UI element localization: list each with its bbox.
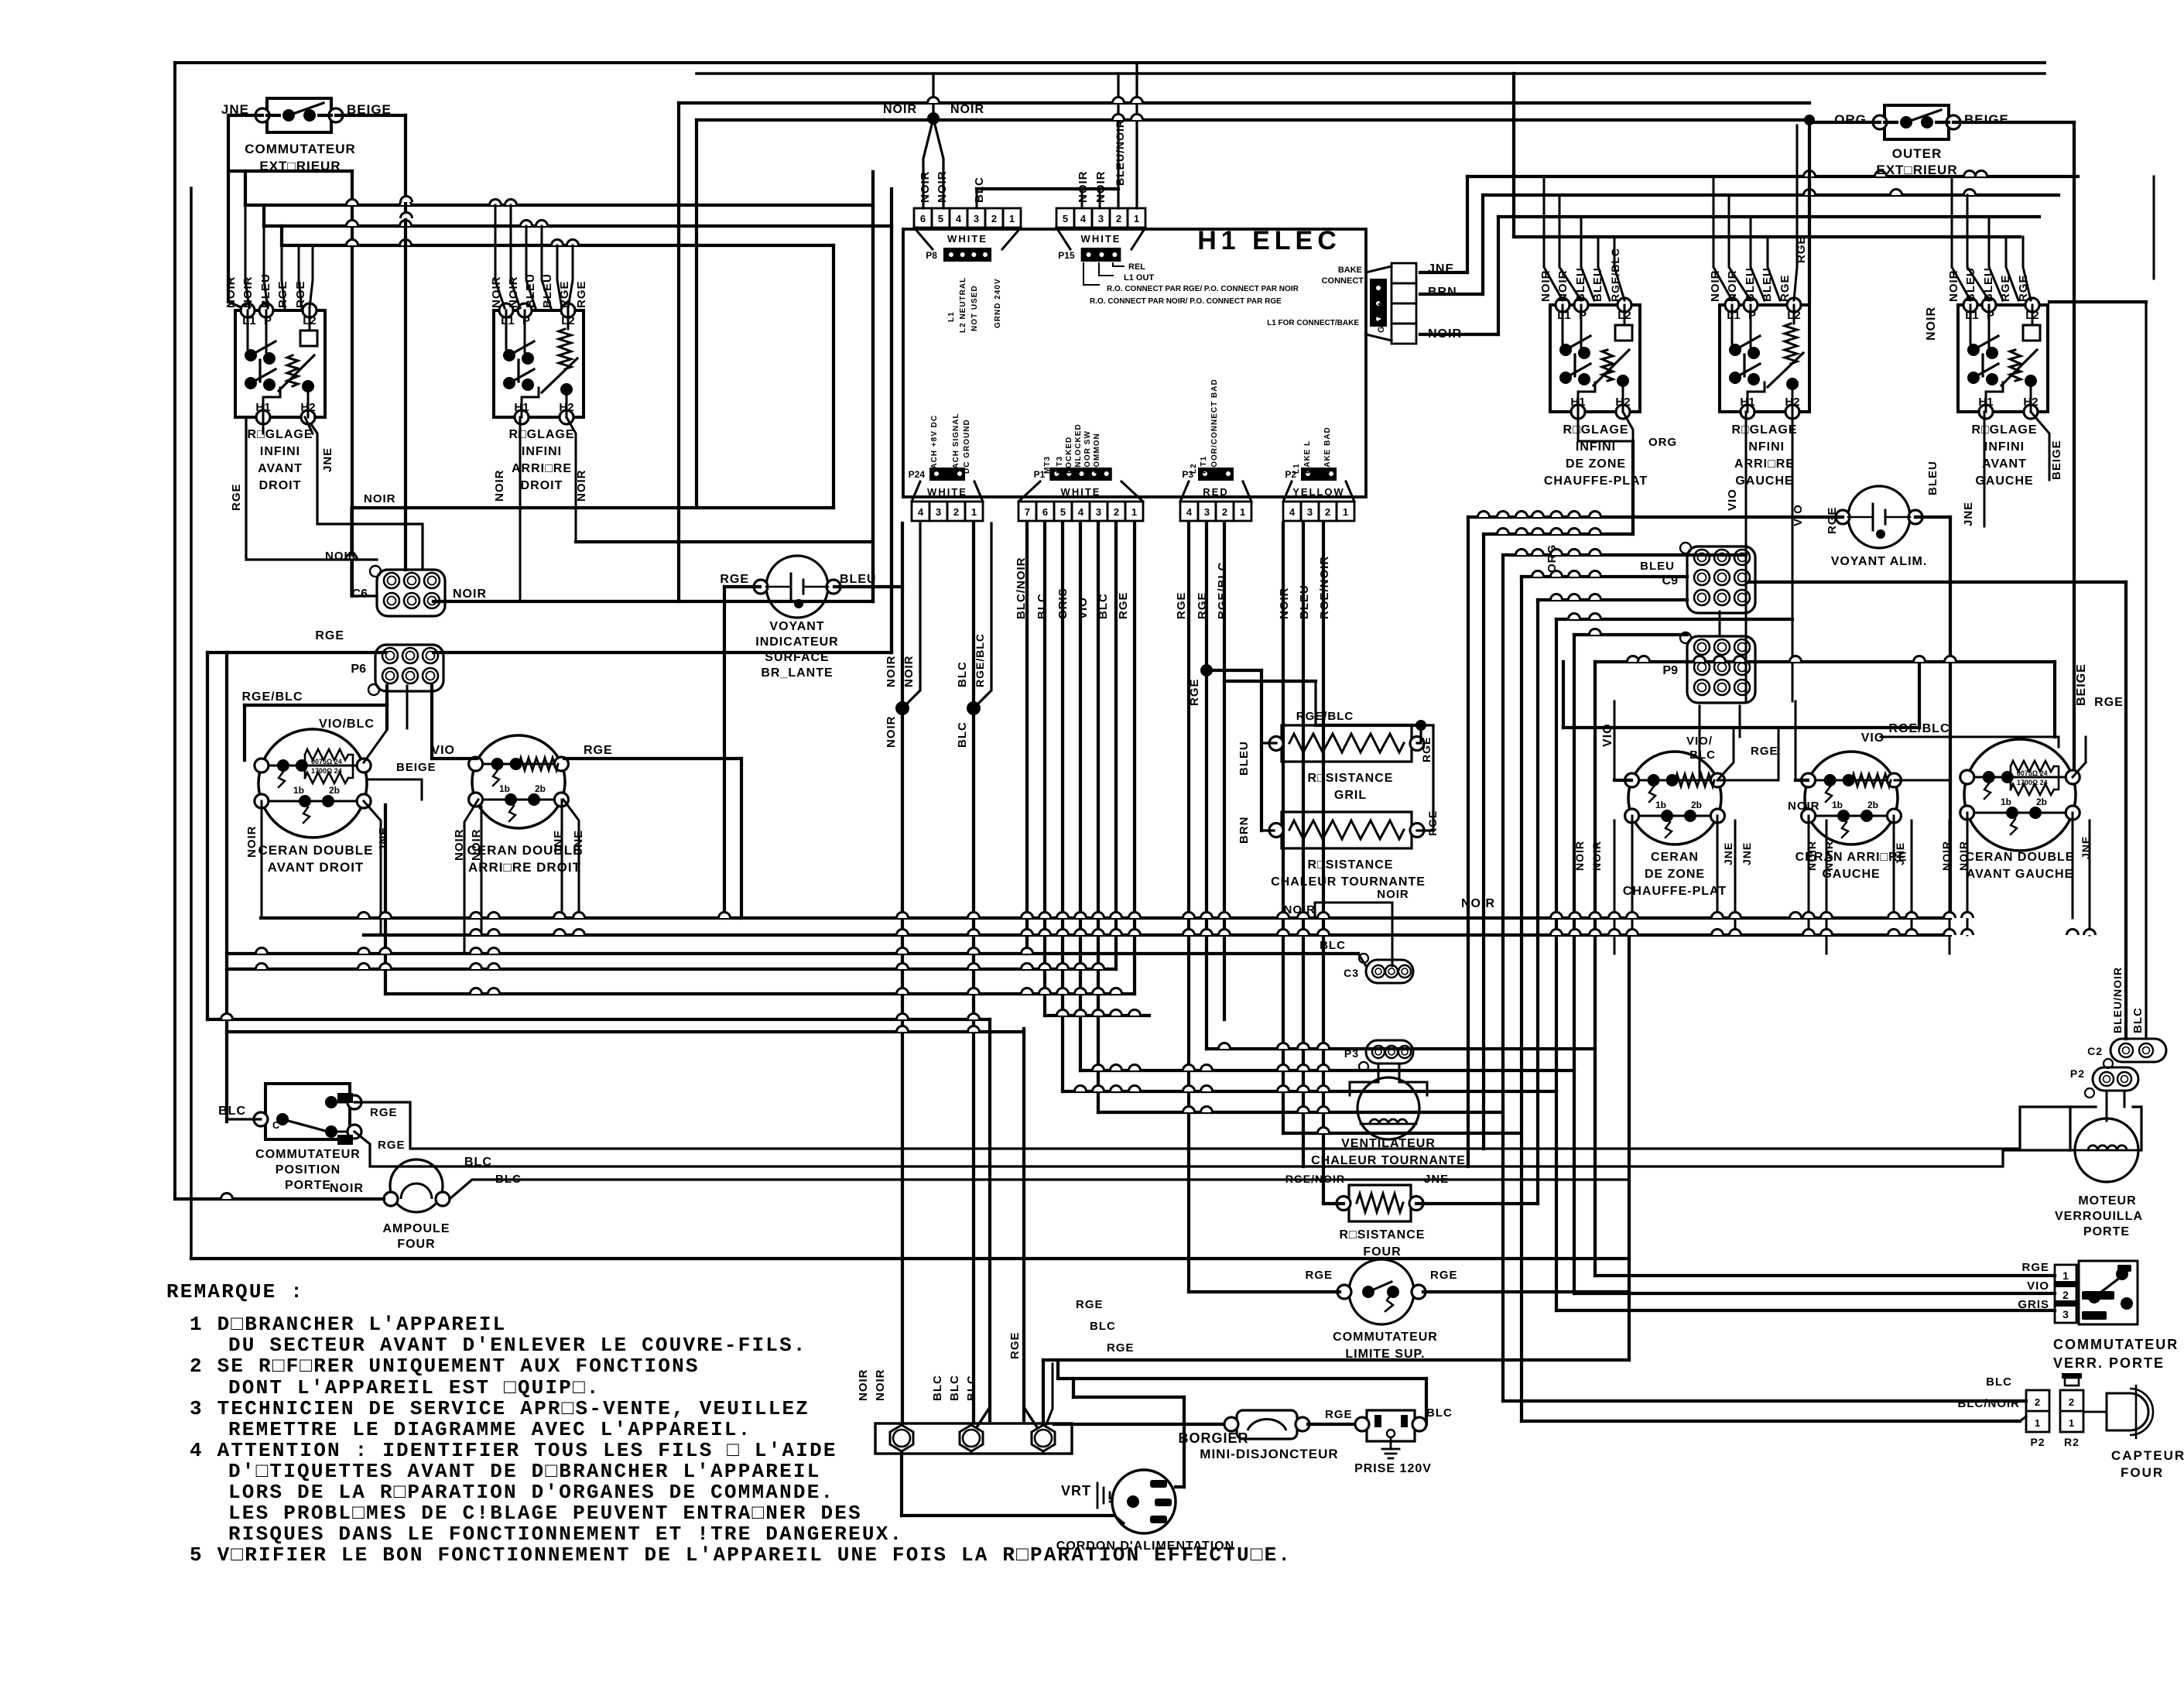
svg-text:INFINI: INFINI [522, 445, 562, 458]
svg-text:RGE: RGE [294, 280, 307, 308]
svg-text:D'□TIQUETTES AVANT DE D□BRANCH: D'□TIQUETTES AVANT DE D□BRANCHER L'APPAR… [228, 1460, 821, 1483]
svg-text:NOIR: NOIR [1823, 841, 1835, 871]
svg-text:RGE: RGE [2094, 696, 2124, 709]
svg-text:DOOR SW: DOOR SW [1083, 430, 1092, 474]
svg-text:L2: L2 [1190, 463, 1198, 474]
svg-text:P2: P2 [2070, 1067, 2085, 1080]
svg-text:NOIR: NOIR [936, 171, 949, 204]
svg-text:P: P [264, 314, 272, 327]
svg-text:NOIR: NOIR [507, 276, 520, 309]
svg-text:INFINI: INFINI [260, 445, 300, 458]
svg-text:RGE: RGE [575, 280, 588, 308]
svg-text:COMMUTATEUR: COMMUTATEUR [255, 1148, 361, 1161]
svg-text:AMPOULE: AMPOULE [383, 1222, 450, 1235]
svg-text:JNE: JNE [377, 827, 390, 851]
svg-text:DU SECTEUR AVANT D'ENLEVER LE: DU SECTEUR AVANT D'ENLEVER LE COUVRE-FIL… [228, 1334, 807, 1357]
svg-text:R.O. CONNECT PAR NOIR/ P.O. CO: R.O. CONNECT PAR NOIR/ P.O. CONNECT PAR … [1090, 297, 1282, 306]
svg-text:NOIR: NOIR [919, 171, 932, 204]
svg-text:BEIGE: BEIGE [1964, 112, 2009, 127]
svg-text:VOYANT: VOYANT [769, 620, 824, 633]
svg-text:3 TECHNICIEN DE SERVICE APR□: 3 TECHNICIEN DE SERVICE APR□S-VENTE, VEU… [190, 1397, 810, 1420]
svg-text:INFINI: INFINI [1984, 440, 2025, 454]
svg-text:YELLOW: YELLOW [1292, 486, 1345, 498]
svg-text:BLEU: BLEU [1591, 267, 1604, 302]
svg-text:LOCKED: LOCKED [1065, 437, 1073, 474]
svg-text:DE ZONE: DE ZONE [1566, 457, 1626, 471]
svg-text:BLC: BLC [218, 1105, 246, 1118]
svg-text:3: 3 [936, 506, 941, 518]
svg-text:RGE: RGE [378, 1139, 406, 1152]
svg-text:CERAN: CERAN [1651, 851, 1699, 864]
svg-text:CHAUFFE-PLAT: CHAUFFE-PLAT [1623, 885, 1727, 898]
svg-text:GREEN: GREEN [1377, 299, 1386, 333]
svg-text:BLC: BLC [464, 1156, 492, 1169]
svg-text:BLEU: BLEU [1237, 741, 1251, 776]
svg-text:RGE: RGE [315, 629, 344, 642]
svg-text:1700Ω 24: 1700Ω 24 [311, 767, 342, 775]
svg-text:BLC: BLC [956, 661, 969, 687]
svg-text:6: 6 [920, 213, 926, 224]
svg-text:BLC: BLC [1689, 748, 1716, 762]
svg-text:L1: L1 [1292, 463, 1301, 474]
svg-text:R.O. CONNECT PAR RGE/ P.O. CON: R.O. CONNECT PAR RGE/ P.O. CONNECT PAR N… [1107, 285, 1299, 293]
svg-text:NOIR: NOIR [453, 587, 487, 601]
svg-text:RGE: RGE [1826, 506, 1839, 534]
svg-text:CONNECT: CONNECT [1322, 276, 1364, 286]
svg-text:VIO: VIO [1726, 488, 1739, 511]
svg-text:VIO: VIO [1601, 723, 1614, 747]
svg-text:P8: P8 [926, 250, 937, 261]
svg-text:JNE: JNE [1722, 842, 1734, 865]
svg-text:LIMITE SUP.: LIMITE SUP. [1345, 1348, 1425, 1361]
svg-text:PRISE 120V: PRISE 120V [1354, 1462, 1432, 1475]
svg-text:TACH SIGNAL: TACH SIGNAL [952, 413, 960, 474]
svg-text:5: 5 [1063, 213, 1068, 224]
svg-text:RGE/BLC: RGE/BLC [974, 633, 986, 687]
svg-text:BLEU: BLEU [524, 273, 537, 308]
svg-text:NOIR: NOIR [1377, 888, 1409, 901]
svg-text:PORTE: PORTE [2083, 1225, 2130, 1238]
svg-text:TACH +8V DC: TACH +8V DC [930, 415, 939, 474]
svg-text:BLEU: BLEU [1761, 267, 1774, 302]
svg-text:GRND 240V: GRND 240V [994, 278, 1002, 328]
svg-text:R□GLAGE: R□GLAGE [247, 428, 313, 441]
svg-text:4: 4 [1078, 506, 1084, 518]
svg-text:JNE: JNE [1424, 1173, 1449, 1186]
svg-text:JNE: JNE [1962, 502, 1975, 526]
svg-text:2b: 2b [535, 783, 546, 794]
svg-text:BRN: BRN [1237, 817, 1251, 844]
svg-text:RGE/BLC: RGE/BLC [1889, 722, 1950, 735]
svg-text:2 SE R□F□RER UNIQUEMENT AUX: 2 SE R□F□RER UNIQUEMENT AUX FONCTIONS [190, 1355, 700, 1378]
svg-text:VERR. PORTE: VERR. PORTE [2053, 1355, 2165, 1371]
svg-text:BLC: BLC [948, 1375, 961, 1401]
svg-text:2: 2 [2062, 1289, 2069, 1301]
svg-text:C6: C6 [352, 587, 368, 601]
svg-text:BLC: BLC [956, 721, 969, 748]
svg-text:BRN: BRN [1428, 286, 1457, 299]
svg-text:P6: P6 [351, 663, 366, 676]
svg-text:AVANT DROIT: AVANT DROIT [268, 860, 365, 875]
svg-text:L1: L1 [947, 311, 956, 322]
svg-text:4: 4 [956, 213, 962, 224]
svg-text:L1: L1 [242, 314, 256, 327]
svg-text:WHITE: WHITE [1081, 233, 1121, 245]
svg-text:NOIR: NOIR [490, 276, 503, 309]
svg-text:RGE/BLC: RGE/BLC [1609, 248, 1621, 302]
svg-text:2: 2 [1222, 506, 1227, 518]
svg-text:7: 7 [1025, 506, 1030, 518]
svg-text:2: 2 [1114, 506, 1119, 518]
svg-text:BLC: BLC [965, 1375, 978, 1401]
svg-text:BLEU: BLEU [1640, 560, 1675, 573]
svg-text:RED: RED [1203, 486, 1228, 498]
svg-text:AVANT GAUCHE: AVANT GAUCHE [1967, 868, 2074, 881]
svg-text:NOIR: NOIR [1573, 841, 1586, 871]
svg-text:2b: 2b [1867, 800, 1878, 810]
svg-text:JNE: JNE [1428, 262, 1454, 276]
svg-text:L1 OUT: L1 OUT [1124, 273, 1154, 283]
svg-text:NOIR: NOIR [1925, 307, 1938, 341]
svg-text:GRIL: GRIL [1334, 789, 1367, 802]
svg-text:RGE: RGE [584, 744, 613, 757]
svg-text:VRT: VRT [1061, 1483, 1091, 1499]
svg-text:DROIT: DROIT [521, 479, 563, 492]
svg-text:CERAN DOUBLE: CERAN DOUBLE [258, 843, 374, 858]
svg-text:NOIR: NOIR [245, 826, 258, 858]
svg-text:DC GROUND: DC GROUND [963, 419, 971, 474]
svg-text:1: 1 [1009, 213, 1015, 224]
svg-text:FOUR: FOUR [1363, 1245, 1401, 1259]
svg-text:BLEU: BLEU [1574, 267, 1587, 302]
svg-text:RGE/BLC: RGE/BLC [1296, 710, 1354, 723]
svg-text:NOIR: NOIR [241, 276, 255, 309]
svg-text:NOIR: NOIR [1461, 897, 1495, 910]
svg-text:3: 3 [1204, 506, 1210, 518]
svg-text:4: 4 [1289, 506, 1296, 518]
svg-text:2b: 2b [1691, 800, 1702, 810]
svg-text:RGE: RGE [720, 573, 749, 586]
svg-text:BEIGE: BEIGE [2075, 663, 2088, 706]
svg-text:DROIT: DROIT [259, 479, 302, 492]
svg-text:R2: R2 [2064, 1436, 2080, 1448]
svg-text:NOIR: NOIR [1726, 270, 1739, 303]
svg-text:SURFACE: SURFACE [765, 651, 829, 664]
svg-text:BEIGE: BEIGE [396, 761, 436, 774]
svg-text:2b: 2b [329, 785, 340, 796]
svg-text:NOIR: NOIR [902, 656, 916, 688]
svg-text:1: 1 [2069, 1417, 2075, 1429]
svg-text:1: 1 [1131, 506, 1137, 518]
svg-text:2: 2 [953, 506, 959, 518]
svg-text:ORG: ORG [1648, 436, 1677, 449]
svg-text:P9: P9 [1662, 664, 1678, 677]
svg-text:CHALEUR TOURNANTE: CHALEUR TOURNANTE [1271, 875, 1426, 889]
svg-text:P: P [1579, 309, 1587, 322]
svg-text:BEIGE: BEIGE [2050, 440, 2063, 480]
svg-text:UNLOCKED: UNLOCKED [1074, 423, 1083, 474]
svg-text:BLEU: BLEU [1744, 267, 1757, 302]
svg-text:BAKE BAD: BAKE BAD [1323, 426, 1332, 474]
svg-text:NOIR: NOIR [224, 276, 238, 309]
svg-text:VIO: VIO [431, 744, 455, 757]
svg-text:P15: P15 [1058, 250, 1075, 261]
svg-text:R□SISTANCE: R□SISTANCE [1308, 858, 1394, 872]
svg-text:RGE: RGE [230, 483, 243, 511]
svg-text:VIO/BLC: VIO/BLC [319, 718, 375, 731]
svg-text:NOIR: NOIR [883, 103, 917, 116]
svg-text:2: 2 [991, 213, 997, 224]
svg-text:L1 FOR CONNECT/BAKE: L1 FOR CONNECT/BAKE [1267, 319, 1359, 327]
svg-text:ORG: ORG [1834, 112, 1867, 127]
svg-text:NOIR: NOIR [857, 1369, 870, 1402]
svg-text:INFINI: INFINI [1744, 440, 1785, 454]
svg-text:0075Ω 24: 0075Ω 24 [311, 758, 342, 766]
svg-text:VIO: VIO [1792, 504, 1805, 526]
svg-text:2: 2 [2069, 1396, 2075, 1408]
svg-text:FOUR: FOUR [2121, 1465, 2164, 1480]
svg-text:CERAN DOUBLE: CERAN DOUBLE [467, 843, 583, 858]
svg-text:3: 3 [974, 213, 979, 224]
svg-text:3: 3 [1307, 506, 1313, 518]
svg-text:R□GLAGE: R□GLAGE [1563, 423, 1628, 437]
svg-text:BLC: BLC [931, 1375, 944, 1401]
svg-text:6: 6 [1042, 506, 1048, 518]
svg-text:JNE: JNE [1894, 842, 1906, 865]
svg-text:1b: 1b [499, 783, 510, 794]
svg-text:VIO: VIO [1077, 597, 1090, 619]
svg-text:RGE: RGE [1325, 1408, 1353, 1421]
svg-text:BLEU: BLEU [1982, 267, 1995, 302]
svg-text:DOOR/CONNECT BAD: DOOR/CONNECT BAD [1210, 379, 1219, 474]
svg-text:BR_LANTE: BR_LANTE [761, 666, 833, 680]
svg-text:4: 4 [1186, 506, 1193, 518]
svg-text:BLEU: BLEU [1926, 461, 1939, 495]
svg-text:JNE: JNE [321, 447, 334, 472]
svg-text:COMMON: COMMON [1093, 433, 1101, 474]
svg-text:CORDON D'ALIMENTATION: CORDON D'ALIMENTATION [1056, 1540, 1234, 1553]
svg-text:CERAN DOUBLE: CERAN DOUBLE [1966, 851, 2075, 864]
svg-text:2: 2 [1325, 506, 1330, 518]
svg-text:RGE: RGE [1305, 1269, 1333, 1282]
svg-text:ARRI□RE: ARRI□RE [1734, 457, 1795, 471]
svg-text:GAUCHE: GAUCHE [1735, 474, 1793, 488]
svg-text:REMARQUE :: REMARQUE : [166, 1280, 304, 1303]
svg-text:BLEU: BLEU [259, 273, 272, 308]
svg-text:P2: P2 [2030, 1436, 2045, 1448]
svg-text:NOT USED: NOT USED [970, 285, 979, 331]
svg-text:PORTE: PORTE [285, 1179, 331, 1192]
svg-text:BLC: BLC [1426, 1406, 1453, 1420]
svg-text:CAPTEUR: CAPTEUR [2111, 1448, 2184, 1463]
svg-text:MT3: MT3 [1043, 456, 1052, 474]
svg-text:NOIR: NOIR [1590, 841, 1603, 871]
svg-text:BLEU: BLEU [840, 573, 877, 586]
svg-text:AVANT: AVANT [1982, 457, 2027, 471]
svg-text:EXT□RIEUR: EXT□RIEUR [259, 159, 341, 173]
svg-text:NOIR: NOIR [874, 1369, 887, 1402]
svg-text:BLC: BLC [1320, 939, 1346, 952]
svg-text:INFINI: INFINI [1576, 440, 1616, 454]
svg-text:RGE: RGE [1117, 591, 1130, 619]
svg-text:RGE: RGE [1188, 678, 1201, 706]
svg-text:P: P [1748, 309, 1756, 322]
svg-text:RGE: RGE [1778, 274, 1792, 302]
svg-text:NOIR: NOIR [1428, 327, 1462, 341]
svg-text:1: 1 [1240, 506, 1245, 518]
svg-text:BLEU/NOIR: BLEU/NOIR [2111, 967, 2124, 1033]
svg-text:RGE: RGE [1008, 1331, 1022, 1359]
svg-text:REMETTRE LE DIAGRAMME AVEC L'A: REMETTRE LE DIAGRAMME AVEC L'APPAREIL. [228, 1418, 752, 1441]
svg-text:R□GLAGE: R□GLAGE [1971, 423, 2037, 437]
svg-text:RGE/BLC: RGE/BLC [242, 690, 303, 704]
svg-text:L1: L1 [1727, 309, 1741, 322]
svg-text:RGE: RGE [558, 280, 571, 308]
svg-text:BLC/NOIR: BLC/NOIR [1958, 1397, 2021, 1410]
svg-text:NOIR: NOIR [1788, 800, 1820, 813]
svg-text:L1: L1 [1965, 309, 1979, 322]
svg-text:3: 3 [1098, 213, 1104, 224]
svg-text:RGE: RGE [2021, 1261, 2049, 1274]
svg-text:NOIR: NOIR [330, 1182, 364, 1195]
svg-text:1700Ω 24: 1700Ω 24 [2017, 779, 2048, 786]
svg-text:VOYANT ALIM.: VOYANT ALIM. [1831, 555, 1928, 568]
svg-text:1b: 1b [1832, 800, 1843, 810]
svg-text:NOIR: NOIR [1947, 270, 1960, 303]
svg-text:BLC: BLC [2131, 1007, 2145, 1033]
svg-text:AVANT: AVANT [258, 462, 303, 475]
svg-text:DE ZONE: DE ZONE [1645, 868, 1705, 881]
svg-text:C: C [272, 1119, 280, 1131]
svg-text:5: 5 [938, 213, 943, 224]
svg-text:P: P [1987, 309, 1994, 322]
svg-text:FOUR: FOUR [397, 1238, 435, 1251]
svg-text:NOIR: NOIR [1556, 270, 1570, 303]
svg-text:NOIR: NOIR [950, 103, 984, 116]
svg-text:POSITION: POSITION [276, 1163, 341, 1177]
svg-text:P24: P24 [909, 469, 926, 480]
svg-text:2b: 2b [2036, 796, 2047, 807]
svg-text:MT3: MT3 [1056, 456, 1064, 474]
svg-text:REL: REL [1128, 262, 1145, 272]
svg-text:NOIR: NOIR [1709, 270, 1722, 303]
svg-text:1: 1 [2062, 1269, 2069, 1282]
svg-text:RGE: RGE [370, 1106, 398, 1119]
svg-text:WHITE: WHITE [947, 233, 988, 245]
svg-text:C2: C2 [2087, 1045, 2103, 1057]
svg-text:NOIR: NOIR [1284, 903, 1316, 916]
svg-text:5: 5 [1060, 506, 1066, 518]
svg-text:WHITE: WHITE [1061, 486, 1101, 498]
svg-text:NOIR: NOIR [1539, 270, 1552, 303]
svg-text:VIO: VIO [2027, 1279, 2049, 1293]
svg-text:4: 4 [918, 506, 924, 518]
svg-text:1: 1 [1134, 213, 1139, 224]
svg-text:WHITE: WHITE [927, 486, 967, 498]
svg-text:R□SISTANCE: R□SISTANCE [1308, 772, 1394, 785]
svg-text:RGE: RGE [276, 280, 289, 308]
svg-text:NOIR: NOIR [325, 550, 358, 563]
svg-text:R□GLAGE: R□GLAGE [1731, 423, 1797, 437]
svg-text:BLEU: BLEU [541, 273, 554, 308]
svg-text:COMMUTATEUR: COMMUTATEUR [245, 142, 356, 156]
svg-text:L1: L1 [501, 314, 515, 327]
svg-text:0075Ω 24: 0075Ω 24 [2017, 769, 2048, 777]
svg-text:R□GLAGE: R□GLAGE [508, 428, 574, 441]
svg-text:COMMUTATEUR: COMMUTATEUR [2053, 1337, 2179, 1352]
svg-text:RGE: RGE [1999, 274, 2012, 302]
svg-text:P: P [522, 314, 530, 327]
svg-text:JNE: JNE [1741, 842, 1753, 865]
svg-text:LORS DE LA R□PARATION D'ORGANE: LORS DE LA R□PARATION D'ORGANES DE COMMA… [228, 1481, 834, 1504]
svg-text:BAKE: BAKE [1338, 265, 1362, 275]
svg-text:MOTEUR: MOTEUR [2078, 1194, 2136, 1207]
svg-text:BLEU: BLEU [1964, 267, 1977, 302]
svg-text:NOIR: NOIR [885, 716, 898, 748]
svg-text:BAKE L: BAKE L [1303, 440, 1312, 474]
svg-text:RGE: RGE [1795, 235, 1808, 263]
svg-text:BLC: BLC [1036, 593, 1049, 619]
svg-text:RGE: RGE [1175, 591, 1188, 619]
svg-text:BLC: BLC [1090, 1320, 1116, 1333]
svg-text:2: 2 [1116, 213, 1121, 224]
svg-text:COMMUTATEUR: COMMUTATEUR [1333, 1331, 1438, 1344]
svg-text:VIO/: VIO/ [1686, 735, 1713, 748]
svg-text:1 D□BRANCHER L'APPAREIL: 1 D□BRANCHER L'APPAREIL [190, 1313, 506, 1336]
svg-text:4 ATTENTION : IDENTIFIER TOU: 4 ATTENTION : IDENTIFIER TOUS LES FILS □… [190, 1439, 837, 1462]
svg-text:1: 1 [1343, 506, 1348, 518]
svg-text:R□SISTANCE: R□SISTANCE [1340, 1228, 1426, 1242]
svg-text:OUTER: OUTER [1892, 146, 1943, 161]
svg-text:NOIR: NOIR [493, 470, 506, 502]
svg-text:BLC: BLC [1986, 1375, 2012, 1389]
svg-text:NOIR: NOIR [364, 492, 396, 505]
svg-text:1: 1 [2035, 1417, 2041, 1429]
svg-text:L2 NEUTRAL: L2 NEUTRAL [959, 277, 967, 333]
svg-text:RGE/NOIR: RGE/NOIR [1285, 1173, 1345, 1185]
svg-text:RGE: RGE [1076, 1298, 1104, 1311]
svg-text:NOIR: NOIR [575, 470, 588, 502]
svg-text:3: 3 [2062, 1308, 2069, 1320]
svg-text:NOIR: NOIR [885, 656, 898, 688]
svg-text:MT1: MT1 [1200, 456, 1208, 474]
svg-text:L1: L1 [1557, 309, 1571, 322]
svg-text:LES PROBL□MES DE C!BLAGE PEUVE: LES PROBL□MES DE C!BLAGE PEUVENT ENTRA□N… [228, 1502, 862, 1525]
svg-text:DONT L'APPAREIL EST □QUIP□.: DONT L'APPAREIL EST □QUIP□. [228, 1376, 601, 1399]
svg-text:VERROUILLA: VERROUILLA [2055, 1210, 2143, 1223]
svg-text:1b: 1b [1655, 800, 1666, 810]
svg-text:4: 4 [1080, 213, 1087, 224]
svg-text:EXT□RIEUR: EXT□RIEUR [1876, 163, 1957, 177]
svg-text:1b: 1b [2001, 796, 2011, 807]
svg-text:INDICATEUR: INDICATEUR [755, 635, 838, 649]
svg-text:RISQUES DANS LE FONCTIONNEMENT: RISQUES DANS LE FONCTIONNEMENT ET !TRE D… [228, 1523, 903, 1546]
svg-text:RGE/BLC: RGE/BLC [1216, 562, 1229, 620]
svg-text:RGE: RGE [1430, 1269, 1458, 1282]
svg-text:RGE: RGE [2017, 274, 2030, 302]
svg-text:MINI-DISJONCTEUR: MINI-DISJONCTEUR [1200, 1447, 1338, 1461]
svg-text:RGE: RGE [1751, 745, 1778, 758]
svg-text:BLEU/NOIR: BLEU/NOIR [1114, 119, 1126, 186]
svg-text:1: 1 [971, 506, 977, 518]
svg-text:C3: C3 [1344, 967, 1359, 979]
svg-text:3: 3 [1096, 506, 1101, 518]
svg-text:1b: 1b [293, 785, 304, 796]
svg-text:2: 2 [2035, 1396, 2041, 1408]
svg-text:NOIR: NOIR [1806, 841, 1818, 871]
svg-text:RGE: RGE [1107, 1341, 1135, 1355]
svg-text:H1 ELEC: H1 ELEC [1197, 226, 1341, 255]
